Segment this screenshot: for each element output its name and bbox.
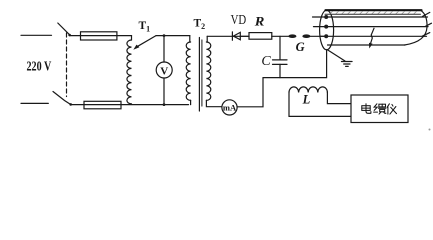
wire 220V bottom terminal xyxy=(21,102,48,104)
wire voltmeter stem lower xyxy=(163,78,165,105)
wire capacitor stem from node at R output xyxy=(279,36,281,59)
svg-text:V: V xyxy=(160,66,168,78)
speck artifact bottom right xyxy=(429,129,431,131)
transformer T2 primary winding xyxy=(186,42,190,100)
instrument box (cable tester) xyxy=(351,95,408,123)
cable core 1 xyxy=(313,16,428,18)
switch S bottom blade xyxy=(53,92,71,105)
wire return node line xyxy=(263,50,327,78)
node bottom hinge dot xyxy=(69,103,72,106)
wire VD row xyxy=(207,35,249,37)
T2 core xyxy=(198,38,200,112)
diode VD triangle xyxy=(233,32,240,39)
wire T2 secondary top corner xyxy=(206,36,208,42)
svg-text:220 V: 220 V xyxy=(27,59,52,74)
wire top rail T1 to T2 xyxy=(156,35,190,37)
wire T1 top corner xyxy=(131,36,133,40)
transformer T2 secondary winding xyxy=(206,42,210,100)
fuse FU2 xyxy=(84,101,121,109)
cable sheath top thick line xyxy=(326,9,422,11)
svg-text:VD: VD xyxy=(231,12,247,27)
cable sheath bottom line xyxy=(328,44,406,46)
glyph dian xyxy=(366,104,371,114)
wire mA to riser xyxy=(237,78,263,107)
node voltmeter bottom xyxy=(163,103,166,106)
diode VD cathode bar xyxy=(231,32,233,40)
svg-text:C: C xyxy=(261,54,271,69)
wire top-left 220V terminal xyxy=(21,34,52,36)
wire L left leg xyxy=(288,93,290,117)
cable core 2 xyxy=(314,26,429,28)
wire bottom rail through fuse xyxy=(71,104,189,106)
transformer T1 winding xyxy=(127,40,132,104)
wire capacitor lower stem xyxy=(279,64,281,77)
cable sheath inner line xyxy=(325,13,421,15)
milliammeter PA circle xyxy=(222,100,237,115)
glyph yi xyxy=(387,104,389,114)
wire top rail through fuse xyxy=(70,35,132,37)
switch S top blade xyxy=(58,23,70,35)
wire R to gap xyxy=(272,35,289,37)
inductor L winding xyxy=(289,87,327,93)
svg-text:T1: T1 xyxy=(139,20,151,34)
wire T2 secondary bottom to mA xyxy=(206,100,222,106)
resistor R body xyxy=(249,33,272,40)
cable sheath hatch band xyxy=(330,11,417,13)
svg-text:L: L xyxy=(302,93,311,107)
T1 wiper arrow xyxy=(136,36,156,48)
wire L right leg to box xyxy=(327,93,351,104)
wire sheath to earth xyxy=(327,50,345,62)
cable core 3 xyxy=(320,35,427,37)
ground symbol xyxy=(342,61,353,63)
cable right end arc xyxy=(405,10,428,45)
svg-text:G: G xyxy=(296,40,305,54)
capacitor C plates xyxy=(273,59,288,61)
label cable tester box (drawn glyphs dian lan yi) xyxy=(362,104,397,114)
glyph lan xyxy=(374,104,378,112)
wire T2 primary bottom xyxy=(190,100,192,104)
fault lightning mark xyxy=(370,28,374,44)
fuse FU1 xyxy=(81,32,117,40)
wire voltmeter stem upper xyxy=(163,36,165,62)
cable left end ellipse xyxy=(320,10,334,50)
wire T2 primary top corner xyxy=(189,36,191,42)
svg-text:mA: mA xyxy=(223,102,237,112)
wire diode to R xyxy=(240,35,249,37)
node voltmeter tap xyxy=(163,34,166,37)
switch linkage dashed line xyxy=(66,33,68,97)
wire gap to cable core xyxy=(310,35,324,37)
spark gap G electrodes xyxy=(288,34,296,38)
wire bottom rail to box xyxy=(289,115,351,117)
cable core junction dots xyxy=(324,15,328,19)
svg-text:T2: T2 xyxy=(194,17,206,31)
svg-text:R: R xyxy=(254,13,265,28)
node top hinge dot xyxy=(68,34,71,37)
voltmeter PV circle xyxy=(156,62,172,78)
